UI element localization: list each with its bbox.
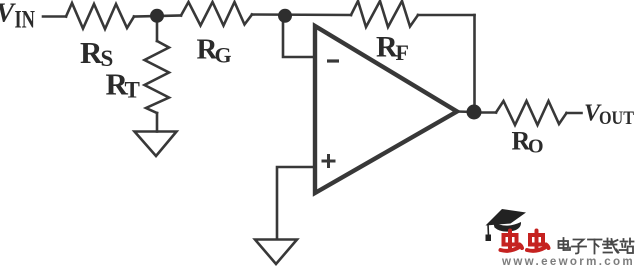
svg-text:www.eeworm.com: www.eeworm.com: [501, 254, 635, 267]
wire non-inverting input: [277, 167, 314, 239]
wire node A down: [156, 17, 159, 42]
svg-text:T: T: [125, 78, 140, 103]
svg-text:G: G: [215, 43, 232, 68]
label R_T: [106, 67, 140, 103]
wire R_F to right corner: [418, 14, 475, 17]
ground (non-inverting input): [255, 240, 297, 265]
ground (below R_T): [135, 132, 177, 157]
wire R_O to V_OUT: [567, 112, 582, 115]
wire R_G to node B: [252, 13, 351, 16]
label V_OUT: [584, 101, 634, 130]
子: [572, 240, 586, 254]
resistor R_S: [66, 3, 134, 29]
logo text 电子下载站 (gray): [559, 238, 634, 254]
wire R_S to node A: [134, 16, 181, 17]
node B junction dot: [278, 9, 292, 23]
wire R_T to ground: [156, 113, 159, 132]
svg-text:F: F: [396, 40, 409, 65]
op-amp U1: [315, 26, 457, 193]
node A junction dot: [150, 9, 164, 23]
op-amp minus pin label: [327, 59, 339, 62]
下: [588, 240, 602, 254]
wire node B down to inverting input: [283, 17, 314, 58]
label R_S: [80, 35, 113, 71]
logo graduation cap: [486, 209, 527, 241]
label R_G: [197, 34, 232, 68]
resistor R_O: [496, 101, 567, 125]
op-amp plus pin label: [322, 154, 336, 168]
label R_O: [512, 127, 544, 158]
svg-text:OUT: OUT: [599, 108, 634, 129]
svg-text:O: O: [528, 136, 544, 158]
wire down to output node: [473, 15, 476, 110]
wire op-amp apex to output node: [457, 110, 474, 113]
站: [620, 239, 634, 254]
wire V_IN lead: [43, 15, 66, 18]
svg-text:IN: IN: [15, 7, 36, 34]
resistor R_T: [145, 41, 170, 113]
载: [603, 239, 619, 253]
电: [559, 238, 571, 250]
wire output to R_O: [474, 111, 496, 114]
logo text 虫虫 (red): [501, 231, 549, 251]
output node junction dot: [467, 105, 482, 120]
label R_F: [376, 31, 409, 66]
resistor R_F: [351, 1, 418, 27]
resistor R_G: [181, 2, 252, 26]
label V_IN: [0, 0, 35, 34]
